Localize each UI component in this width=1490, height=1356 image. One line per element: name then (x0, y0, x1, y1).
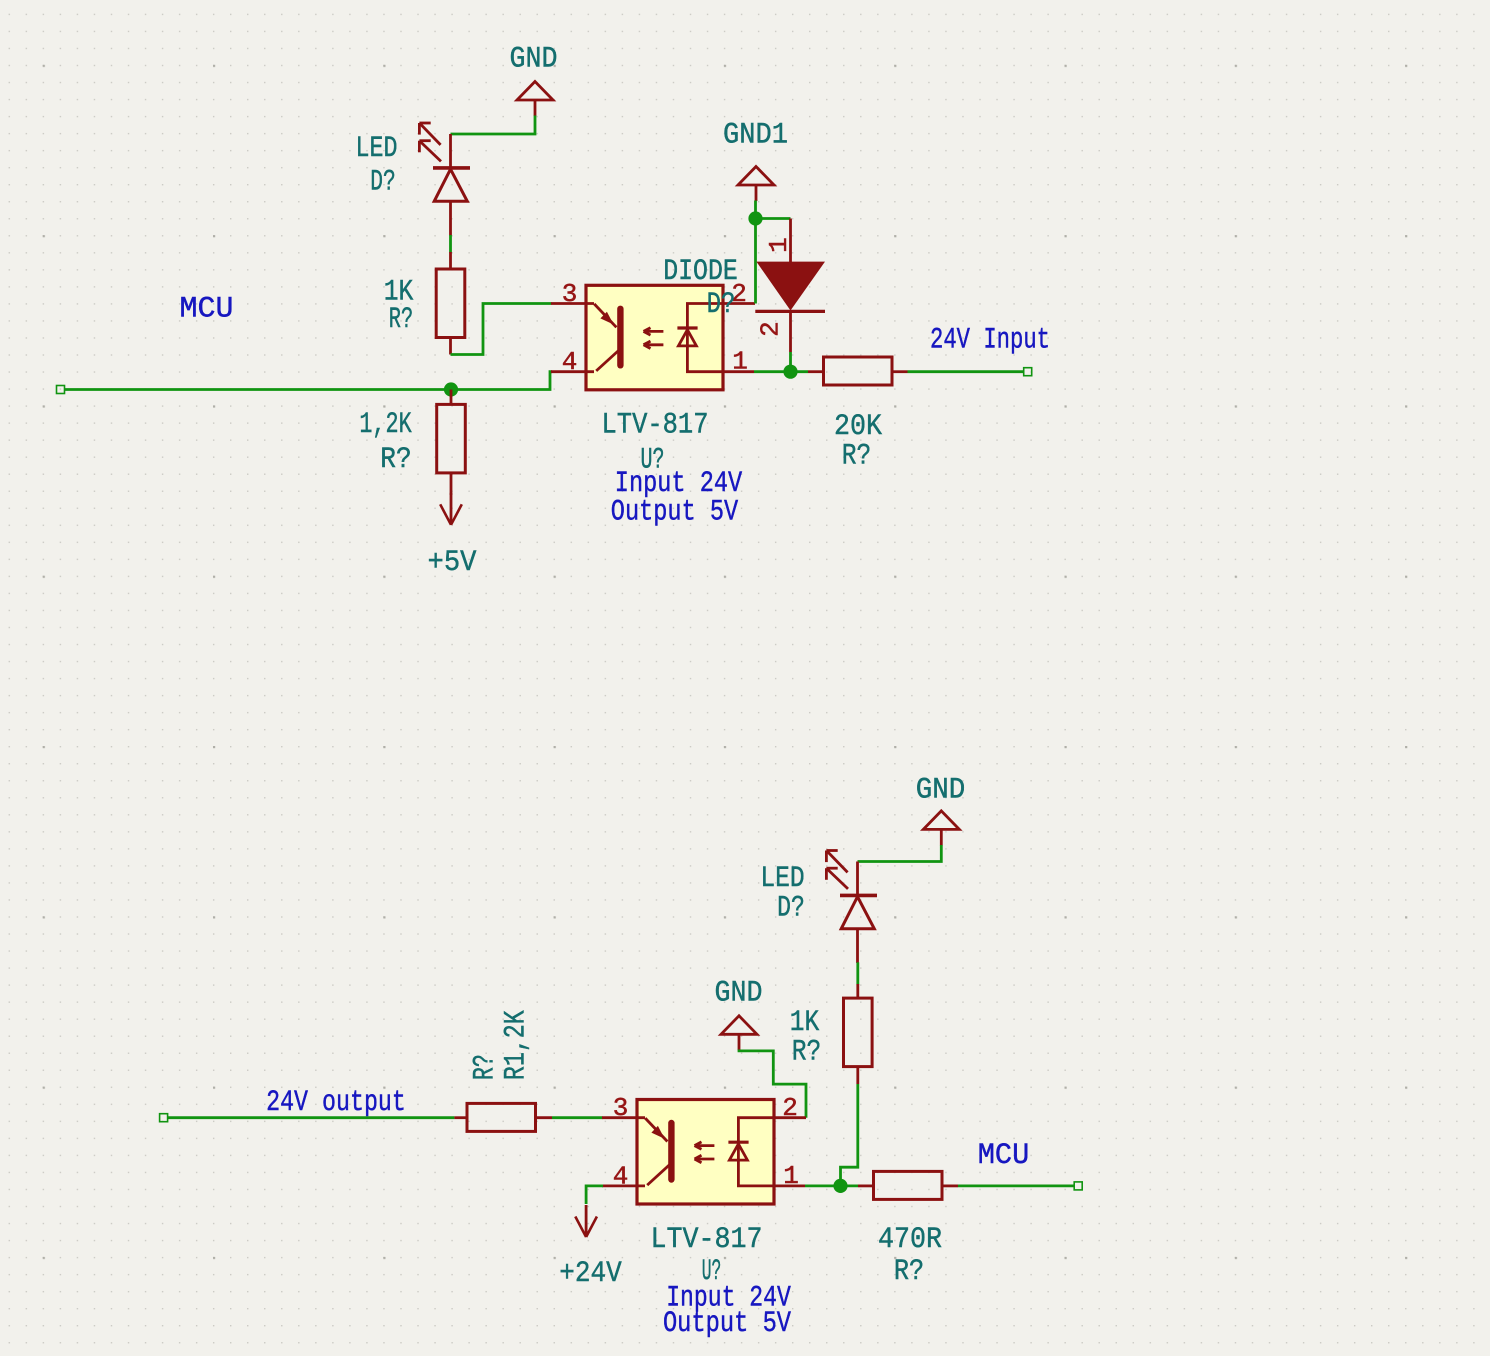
wire R to opto pin 3 (552, 1116, 603, 1119)
wire diode pin 2 to node (789, 352, 792, 372)
svg-text:Output 5V: Output 5V (663, 1307, 791, 1341)
svg-text:+5V: +5V (428, 546, 477, 580)
svg-text:GND: GND (916, 774, 966, 808)
wire LED to R 1K (449, 235, 452, 253)
svg-text:D?: D? (370, 166, 396, 200)
svg-text:1,2K: 1,2K (359, 408, 411, 442)
wire GND to opto pin 2 (739, 1050, 806, 1118)
wire R 1K to junction at 470R (841, 1084, 858, 1186)
svg-text:24V output: 24V output (266, 1086, 406, 1120)
svg-text:GND1: GND1 (723, 119, 788, 153)
node junction MCU/R1,2K (444, 382, 458, 396)
node junction diode/20K (783, 365, 797, 379)
node junction pin1/1K (833, 1179, 847, 1193)
svg-text:D?: D? (777, 892, 805, 926)
svg-text:Output 5V: Output 5V (611, 496, 738, 530)
LED D? (bottom) (826, 851, 877, 964)
ground GND (bottom left) (721, 1016, 757, 1051)
resistor R? 1K (bottom) (856, 984, 859, 998)
optocoupler U? LTV-817 (bottom) (602, 1093, 806, 1204)
svg-text:R?: R? (894, 1255, 924, 1289)
ground GND (bottom right) (923, 811, 959, 846)
svg-text:R?: R? (469, 1054, 503, 1080)
svg-text:GND: GND (715, 977, 763, 1011)
LED D1 (top) (419, 123, 470, 236)
wire GND1 to opto pin 2 (754, 201, 757, 304)
resistor R? 470R (858, 1185, 874, 1188)
wire junction to diode pin 1 (756, 217, 791, 220)
svg-text:R1,2K: R1,2K (500, 1010, 534, 1080)
wire 24V output net (160, 1114, 168, 1122)
svg-text:R?: R? (842, 440, 872, 474)
svg-text:2: 2 (756, 321, 786, 337)
svg-text:LTV-817: LTV-817 (650, 1223, 762, 1257)
svg-text:R?: R? (389, 303, 413, 337)
resistor R? R1,2K (horizontal) (454, 1116, 467, 1119)
svg-text:R?: R? (380, 443, 411, 477)
wire 470R to MCU end (958, 1185, 1074, 1188)
svg-text:MCU: MCU (978, 1139, 1030, 1173)
wire opto pin 1 to 470R (805, 1185, 858, 1188)
wire MCU net (57, 386, 65, 394)
svg-text:GND: GND (510, 43, 558, 77)
node junction GND1 (748, 211, 762, 225)
wire opto pin 4 to +24V (586, 1186, 603, 1204)
power +5V (440, 493, 462, 525)
ground GND1 (738, 167, 774, 202)
svg-text:LED: LED (356, 132, 398, 166)
svg-text:24V Input: 24V Input (930, 324, 1050, 358)
wire GND to LED anode (451, 116, 536, 135)
ground GND (top) (517, 82, 553, 117)
resistor R? 1,2K (450, 390, 453, 405)
wire GND to LED anode (858, 845, 942, 862)
op-amp? no: optocoupler U? LTV-817 (top) (551, 279, 755, 390)
svg-text:1: 1 (764, 237, 794, 253)
resistor R? 1K (top) (449, 252, 452, 269)
svg-text:470R: 470R (878, 1223, 942, 1257)
wire opto pin1 to 20K (754, 370, 808, 373)
power +24V (575, 1205, 597, 1237)
svg-text:MCU: MCU (180, 293, 234, 327)
svg-text:+24V: +24V (559, 1257, 621, 1291)
wire 20K to 24V Input end (908, 370, 1024, 373)
svg-text:D?: D? (707, 288, 736, 322)
resistor R? 20K (808, 370, 824, 373)
wire LED to R 1K (bottom) (856, 962, 859, 984)
svg-text:LTV-817: LTV-817 (602, 408, 709, 442)
diode D? (TVS) (789, 219, 792, 263)
svg-text:R?: R? (792, 1036, 822, 1070)
wire R 1K to opto pin 3 (451, 304, 552, 355)
svg-text:DIODE: DIODE (663, 255, 738, 289)
